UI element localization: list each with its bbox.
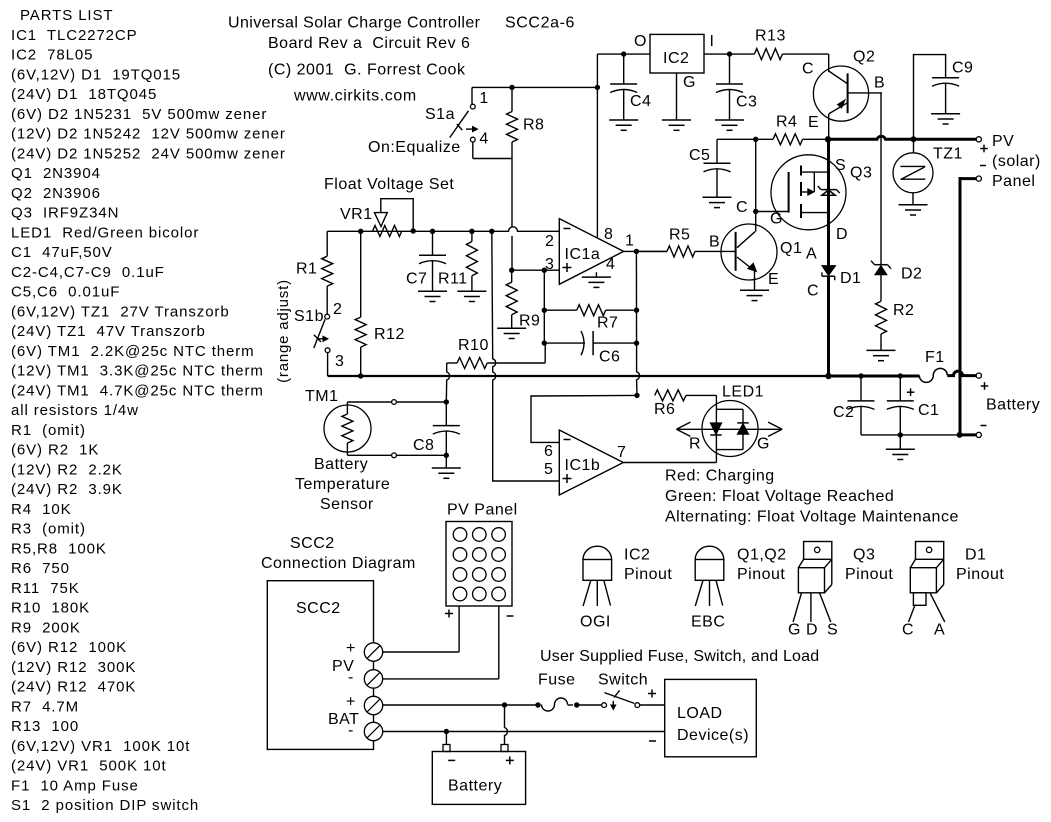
svg-text:O: O (634, 33, 647, 50)
svg-text:VR1: VR1 (340, 206, 373, 223)
svg-text:(24V) VR1 500K 10t: (24V) VR1 500K 10t (11, 758, 167, 775)
svg-text:TM1: TM1 (305, 388, 339, 405)
svg-text:PARTS LIST: PARTS LIST (20, 7, 113, 24)
svg-text:+: + (346, 694, 356, 711)
svg-text:On:Equalize: On:Equalize (368, 139, 461, 156)
svg-text:Board Rev a Circuit Rev 6: Board Rev a Circuit Rev 6 (268, 35, 470, 52)
svg-text:S1b: S1b (294, 308, 324, 325)
svg-text:R4 10K: R4 10K (11, 501, 72, 518)
svg-text:Alternating: Float Voltage Mai: Alternating: Float Voltage Maintenance (665, 509, 959, 526)
svg-text:(24V) TM1 4.7K@25c NTC therm: (24V) TM1 4.7K@25c NTC therm (11, 382, 264, 399)
svg-text:F1: F1 (925, 349, 945, 366)
svg-text:G: G (757, 436, 770, 453)
svg-text:C1 47uF,50V: C1 47uF,50V (11, 244, 113, 261)
svg-text:I: I (710, 33, 715, 50)
svg-text:D1: D1 (840, 270, 861, 287)
svg-text:(6V) TM1 2.2K@25c NTC therm: (6V) TM1 2.2K@25c NTC therm (11, 343, 255, 360)
svg-text:(12V) TM1 3.3K@25c NTC therm: (12V) TM1 3.3K@25c NTC therm (11, 363, 264, 380)
svg-text:S: S (827, 622, 838, 639)
svg-text:6: 6 (544, 443, 553, 460)
svg-text:C9: C9 (952, 60, 973, 77)
svg-text:3: 3 (335, 353, 344, 370)
svg-text:F1 10 Amp Fuse: F1 10 Amp Fuse (11, 777, 139, 794)
svg-text:A: A (934, 622, 945, 639)
svg-text:PV Panel: PV Panel (447, 501, 518, 518)
svg-text:4: 4 (479, 131, 488, 148)
svg-text:D1: D1 (965, 547, 986, 564)
svg-text:Pinout: Pinout (956, 566, 1004, 583)
svg-text:LED1: LED1 (722, 384, 764, 401)
svg-text:(6V,12V) D1 19TQ015: (6V,12V) D1 19TQ015 (11, 66, 181, 83)
svg-text:C1: C1 (918, 402, 939, 419)
svg-text:R10: R10 (458, 337, 489, 354)
svg-text:OGI: OGI (580, 613, 611, 630)
svg-text:IC1 TLC2272CP: IC1 TLC2272CP (11, 27, 138, 44)
svg-text:Float Voltage Set: Float Voltage Set (324, 176, 454, 193)
svg-text:(6V,12V) VR1 100K 10t: (6V,12V) VR1 100K 10t (11, 738, 190, 755)
svg-text:Pinout: Pinout (624, 566, 672, 583)
svg-text:R13 100: R13 100 (11, 718, 79, 735)
svg-text:E: E (808, 114, 819, 131)
svg-text:LOAD: LOAD (677, 705, 723, 722)
svg-text:7: 7 (617, 444, 626, 461)
svg-text:BAT: BAT (328, 711, 359, 728)
svg-text:C8: C8 (413, 437, 434, 454)
svg-text:R11 75K: R11 75K (11, 580, 80, 597)
svg-text:R6 750: R6 750 (11, 560, 70, 577)
svg-text:R12: R12 (374, 326, 405, 343)
svg-text:8: 8 (604, 226, 613, 243)
svg-text:C5,C6 0.01uF: C5,C6 0.01uF (11, 284, 120, 301)
svg-text:G: G (683, 74, 696, 91)
svg-text:Panel: Panel (992, 173, 1035, 190)
svg-text:Switch: Switch (598, 672, 648, 689)
svg-text:IC1a: IC1a (565, 246, 601, 263)
svg-text:Fuse: Fuse (538, 672, 576, 689)
svg-text:G: G (788, 622, 801, 639)
svg-text:Green: Float Voltage Reached: Green: Float Voltage Reached (665, 488, 894, 505)
svg-text:Battery: Battery (986, 397, 1040, 414)
svg-text:B: B (709, 234, 720, 251)
svg-text:SCC2: SCC2 (290, 535, 335, 552)
svg-text:(range adjust): (range adjust) (275, 279, 292, 383)
svg-text:C: C (807, 283, 819, 300)
svg-text:R7 4.7M: R7 4.7M (11, 698, 79, 715)
svg-text:Q2 2N3906: Q2 2N3906 (11, 185, 101, 202)
svg-text:1: 1 (625, 233, 634, 250)
svg-text:-: - (348, 722, 354, 739)
svg-text:Pinout: Pinout (737, 566, 785, 583)
svg-text:(24V) TZ1 47V Transzorb: (24V) TZ1 47V Transzorb (11, 323, 206, 340)
svg-text:R5,R8 100K: R5,R8 100K (11, 540, 107, 557)
svg-text:+: + (346, 640, 356, 657)
svg-text:Device(s): Device(s) (677, 727, 749, 744)
svg-text:C: C (902, 622, 914, 639)
svg-text:R8: R8 (523, 117, 544, 134)
svg-text:Q2: Q2 (853, 49, 875, 66)
svg-text:Q1: Q1 (780, 240, 802, 257)
svg-text:(6V) R12 100K: (6V) R12 100K (11, 639, 127, 656)
svg-text:D: D (806, 622, 818, 639)
svg-text:Sensor: Sensor (320, 496, 374, 513)
svg-text:C7: C7 (406, 271, 427, 288)
svg-text:SCC2a-6: SCC2a-6 (505, 15, 575, 32)
svg-text:4: 4 (606, 256, 615, 273)
svg-text:R1: R1 (296, 261, 317, 278)
svg-text:all resistors 1/4w: all resistors 1/4w (11, 402, 139, 419)
svg-text:Q3: Q3 (850, 165, 872, 182)
svg-text:Connection Diagram: Connection Diagram (261, 555, 416, 572)
svg-text:S1a: S1a (425, 106, 455, 123)
svg-text:G: G (770, 211, 783, 228)
svg-text:(12V) D2 1N5242 12V 500mw zen: (12V) D2 1N5242 12V 500mw zener (11, 126, 286, 143)
svg-text:R5: R5 (669, 226, 690, 243)
svg-text:E: E (768, 271, 779, 288)
svg-text:Q3 IRF9Z34N: Q3 IRF9Z34N (11, 205, 119, 222)
svg-text:IC1b: IC1b (565, 457, 601, 474)
svg-text:Universal Solar Charge Control: Universal Solar Charge Controller (228, 15, 481, 32)
svg-text:R4: R4 (776, 113, 797, 130)
svg-text:(24V) D2 1N5252 24V 500mw zen: (24V) D2 1N5252 24V 500mw zener (11, 145, 286, 162)
svg-text:R1 (omit): R1 (omit) (11, 422, 86, 439)
svg-text:IC2: IC2 (663, 50, 689, 67)
svg-text:Q3: Q3 (853, 547, 875, 564)
svg-text:(24V) R2 3.9K: (24V) R2 3.9K (11, 481, 123, 498)
svg-text:C6: C6 (599, 349, 620, 366)
svg-text:S: S (835, 157, 846, 174)
svg-text:R10 180K: R10 180K (11, 600, 90, 617)
svg-text:(24V) D1 18TQ045: (24V) D1 18TQ045 (11, 86, 157, 103)
svg-text:PV: PV (992, 133, 1014, 150)
svg-text:R: R (689, 436, 701, 453)
svg-text:-: - (348, 669, 354, 686)
svg-text:C: C (802, 60, 814, 77)
svg-text:Temperature: Temperature (295, 476, 390, 493)
svg-text:TZ1: TZ1 (933, 146, 963, 163)
svg-text:(6V) D2 1N5231 5V 500mw zener: (6V) D2 1N5231 5V 500mw zener (11, 106, 267, 123)
svg-text:(12V) R12 300K: (12V) R12 300K (11, 659, 136, 676)
svg-text:D: D (836, 226, 848, 243)
svg-text:Battery: Battery (314, 456, 368, 473)
svg-text:R6: R6 (654, 401, 675, 418)
svg-text:Pinout: Pinout (845, 566, 893, 583)
svg-text:D2: D2 (901, 265, 922, 282)
svg-text:Battery: Battery (448, 777, 502, 794)
svg-text:2: 2 (333, 301, 342, 318)
svg-text:2: 2 (545, 233, 554, 250)
svg-text:R3 (omit): R3 (omit) (11, 521, 86, 538)
svg-text:Q1 2N3904: Q1 2N3904 (11, 165, 101, 182)
svg-text:R11: R11 (438, 271, 468, 288)
svg-text:(solar): (solar) (992, 153, 1041, 170)
svg-text:Q1,Q2: Q1,Q2 (737, 547, 787, 564)
svg-text:User Supplied Fuse, Switch, an: User Supplied Fuse, Switch, and Load (540, 648, 819, 665)
svg-text:R2: R2 (893, 302, 914, 319)
svg-text:C5: C5 (689, 147, 710, 164)
svg-text:C2-C4,C7-C9 0.1uF: C2-C4,C7-C9 0.1uF (11, 264, 165, 281)
svg-text:EBC: EBC (691, 613, 725, 630)
svg-text:R9: R9 (519, 313, 540, 330)
svg-text:(12V) R2 2.2K: (12V) R2 2.2K (11, 461, 123, 478)
svg-text:C: C (736, 199, 748, 216)
svg-text:1: 1 (479, 90, 488, 107)
svg-text:(6V) R2 1K: (6V) R2 1K (11, 442, 99, 459)
svg-text:LED1 Red/Green bicolor: LED1 Red/Green bicolor (11, 224, 199, 241)
svg-text:IC2 78L05: IC2 78L05 (11, 47, 93, 64)
svg-text:B: B (874, 74, 885, 91)
svg-text:SCC2: SCC2 (296, 600, 341, 617)
svg-text:www.cirkits.com: www.cirkits.com (293, 88, 417, 105)
svg-text:C3: C3 (736, 94, 757, 111)
svg-text:R9 200K: R9 200K (11, 619, 81, 636)
svg-text:R7: R7 (597, 314, 618, 331)
svg-text:IC2: IC2 (624, 547, 650, 564)
svg-text:(6V,12V) TZ1 27V Transzorb: (6V,12V) TZ1 27V Transzorb (11, 303, 230, 320)
svg-text:C2: C2 (833, 404, 854, 421)
svg-text:(C) 2001 G. Forrest Cook: (C) 2001 G. Forrest Cook (268, 61, 466, 78)
svg-text:Red: Charging: Red: Charging (665, 468, 775, 485)
svg-text:5: 5 (544, 461, 553, 478)
svg-text:S1 2 position DIP switch: S1 2 position DIP switch (11, 797, 199, 814)
svg-text:A: A (806, 245, 817, 262)
svg-text:(24V) R12 470K: (24V) R12 470K (11, 679, 136, 696)
svg-text:R13: R13 (755, 27, 786, 44)
svg-text:C4: C4 (630, 93, 651, 110)
